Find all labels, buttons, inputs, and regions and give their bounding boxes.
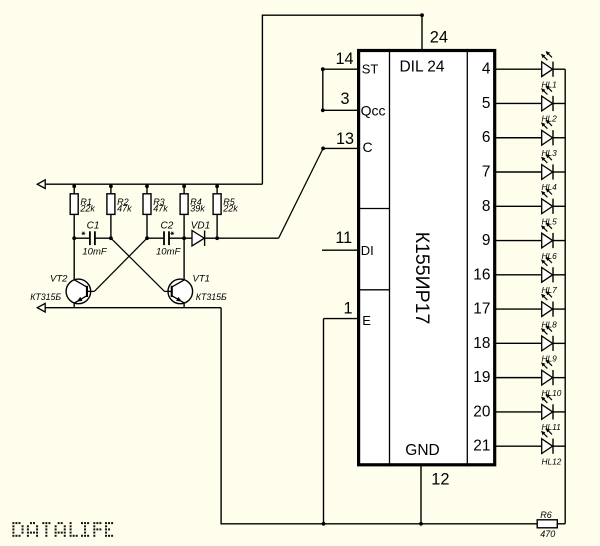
junction node E-net on ground rail xyxy=(322,522,326,526)
svg-text:8: 8 xyxy=(482,198,491,215)
svg-text:VT2: VT2 xyxy=(50,274,68,285)
junction node pin13 corner xyxy=(321,147,325,151)
svg-text:HL7: HL7 xyxy=(542,285,558,295)
svg-text:39k: 39k xyxy=(190,204,205,214)
svg-text:ST: ST xyxy=(362,61,379,76)
svg-text:HL2: HL2 xyxy=(542,114,558,124)
svg-text:14: 14 xyxy=(335,50,353,68)
svg-text:К155ИР17: К155ИР17 xyxy=(411,232,433,325)
svg-text:22k: 22k xyxy=(222,204,238,214)
power arrow (supply rail, left end) xyxy=(37,180,45,189)
svg-text:VT1: VT1 xyxy=(193,274,210,285)
transistor VT2 xyxy=(66,279,94,304)
junction node top rail / R2 xyxy=(109,184,113,188)
svg-text:DI: DI xyxy=(361,243,374,258)
junction node pin12 on ground rail xyxy=(419,522,423,526)
svg-text:20: 20 xyxy=(473,403,490,420)
junction node cap row / R3 xyxy=(145,236,149,240)
svg-text:HL5: HL5 xyxy=(542,216,558,226)
svg-text:HL11: HL11 xyxy=(542,422,561,432)
svg-text:24: 24 xyxy=(430,28,448,46)
junction node cap row / R4 xyxy=(182,236,186,240)
LED HL9 xyxy=(495,325,565,351)
svg-text:C: C xyxy=(363,139,373,155)
junction node at pin-24 corner xyxy=(420,13,424,17)
svg-text:HL4: HL4 xyxy=(542,182,558,192)
svg-text:HL9: HL9 xyxy=(542,354,558,364)
svg-text:C2: C2 xyxy=(161,221,174,232)
resistor R6 xyxy=(537,520,557,528)
svg-text:5: 5 xyxy=(482,95,491,112)
svg-text:19: 19 xyxy=(473,369,490,386)
resistor R5 xyxy=(213,184,221,238)
svg-text:4: 4 xyxy=(482,61,491,78)
polarity mark of C1 xyxy=(82,232,86,235)
svg-text:21: 21 xyxy=(473,438,490,455)
wire: pin 12 lead (GND) down xyxy=(420,465,422,523)
wire: +supply top rail xyxy=(45,183,262,185)
svg-text:HL8: HL8 xyxy=(542,319,558,329)
junction node pin14 corner xyxy=(321,67,325,71)
resistor R3 xyxy=(143,184,151,238)
svg-text:13: 13 xyxy=(336,130,354,148)
wire: pin 24 lead xyxy=(421,15,423,50)
svg-text:HL1: HL1 xyxy=(542,79,557,89)
diode VD1 xyxy=(184,231,217,246)
svg-text:КТ315Б: КТ315Б xyxy=(30,292,61,302)
svg-text:6: 6 xyxy=(482,129,491,146)
junction node cap row / R1 xyxy=(72,236,76,240)
wire: pin 11 stub (DI) xyxy=(322,249,357,251)
wire: link pin14-pin3 xyxy=(322,69,324,110)
wire: cap row C2 to R4 xyxy=(169,237,184,239)
LED HL12 xyxy=(495,428,565,454)
LED HL2 xyxy=(495,85,565,111)
wire: pin 14 lead xyxy=(323,68,357,70)
wire: ground rail down-right corner xyxy=(221,308,537,524)
junction node top rail / R3 xyxy=(145,184,149,188)
svg-text:17: 17 xyxy=(473,301,490,318)
capacitor C2 xyxy=(164,231,169,245)
junction node cap row / R5 xyxy=(215,236,219,240)
svg-text:КТ315Б: КТ315Б xyxy=(196,292,227,302)
LED HL3 xyxy=(495,120,565,146)
LED HL10 xyxy=(495,359,565,385)
op-amp U1 (IC K155IR17 DIL24 body) xyxy=(357,49,495,467)
LED HL5 xyxy=(495,188,565,214)
svg-text:10mF: 10mF xyxy=(156,246,181,257)
junction node cap row / R2 xyxy=(109,236,113,240)
wire: cap row R3 to C2 xyxy=(147,237,164,239)
LED HL7 xyxy=(495,257,565,283)
wire: pin 3 lead xyxy=(323,109,357,111)
svg-text:18: 18 xyxy=(473,335,490,352)
svg-text:1: 1 xyxy=(343,299,352,317)
svg-text:16: 16 xyxy=(473,266,490,283)
svg-text:22k: 22k xyxy=(79,204,95,214)
svg-text:3: 3 xyxy=(340,90,349,108)
svg-text:DIL 24: DIL 24 xyxy=(399,59,444,76)
wire: cross-coupling C1 to VT1 base xyxy=(111,238,165,291)
svg-text:HL3: HL3 xyxy=(542,148,558,158)
watermark DATALIFE xyxy=(12,522,113,537)
svg-text:10mF: 10mF xyxy=(82,246,107,257)
svg-text:GND: GND xyxy=(405,442,439,459)
capacitor C1 xyxy=(90,231,95,245)
svg-text:E: E xyxy=(362,313,371,328)
LED HL6 xyxy=(495,222,565,248)
svg-text:9: 9 xyxy=(482,232,491,249)
svg-text:7: 7 xyxy=(482,164,491,181)
junction node top rail / R1 xyxy=(72,184,76,188)
wire: pin 1 lead (E) xyxy=(324,318,358,320)
wire: LED cathode column xyxy=(564,69,566,524)
polarity mark of C2 xyxy=(170,232,174,235)
wire: VT2 collector lead xyxy=(73,238,75,280)
wire: cap row C1 to R2 xyxy=(95,237,111,239)
wire: pin 13 lead xyxy=(323,147,357,149)
wire: diagonal pin13 to clock row xyxy=(279,148,324,238)
resistor R4 xyxy=(180,184,188,238)
svg-text:Qcc: Qcc xyxy=(361,103,386,119)
svg-text:VD1: VD1 xyxy=(191,221,210,232)
svg-text:12: 12 xyxy=(431,470,449,488)
svg-text:47k: 47k xyxy=(117,204,132,214)
wire: clock row to R5 xyxy=(217,237,279,239)
svg-text:HL6: HL6 xyxy=(542,251,558,261)
LED HL4 xyxy=(495,154,565,180)
wire: VT1 collector lead xyxy=(183,238,185,280)
junction node top rail / R5 xyxy=(215,184,219,188)
wire: cap row R1 to C1 xyxy=(74,237,90,239)
junction node top rail / R4 xyxy=(182,184,186,188)
transistor VT1 xyxy=(165,279,193,304)
svg-text:470: 470 xyxy=(540,529,555,539)
LED HL11 xyxy=(495,394,565,420)
svg-text:R6: R6 xyxy=(540,510,552,520)
wire: R6 right lead to LED column xyxy=(557,523,565,525)
LED HL8 xyxy=(495,291,565,317)
wire: VT2 emitter lead xyxy=(73,303,75,308)
power arrow (ground rail, left end) xyxy=(37,303,45,312)
svg-text:HL12: HL12 xyxy=(542,456,562,466)
wire: supply riser to top net xyxy=(262,15,422,184)
svg-text:11: 11 xyxy=(335,229,352,247)
resistor R2 xyxy=(107,184,115,238)
wire: cross-coupling C2 to VT2 base xyxy=(94,238,147,291)
wire: E net down to ground rail xyxy=(323,319,325,524)
wire: multivib ground rail xyxy=(45,307,221,309)
svg-text:47k: 47k xyxy=(153,204,168,214)
svg-text:C1: C1 xyxy=(87,221,100,232)
LED HL1 xyxy=(495,51,565,77)
resistor R1 xyxy=(70,184,78,238)
wire: VT1 emitter lead xyxy=(183,303,185,308)
svg-text:HL10: HL10 xyxy=(542,388,562,398)
junction node pin3 corner xyxy=(321,108,325,112)
